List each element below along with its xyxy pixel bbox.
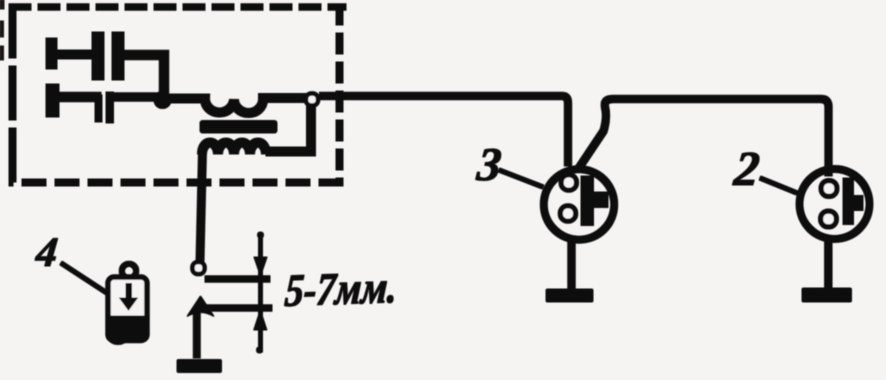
terminal T1 (top, capacitor lead) [46, 38, 57, 69]
wire from T2 to breaker points [52, 92, 101, 102]
gap dimension end dots [258, 232, 264, 238]
ignition coil core [200, 121, 277, 134]
spark plug 2 electrode stub [854, 196, 864, 211]
label 3 leader line [499, 170, 543, 187]
breaker points right contact [106, 92, 114, 123]
gap dimension line [259, 234, 263, 352]
label 2 leader line [760, 178, 797, 193]
breaker arm stem [193, 313, 200, 358]
kill switch knob [122, 264, 136, 278]
svg-text:3: 3 [474, 139, 504, 191]
kill switch lower solid half [109, 315, 147, 340]
gap dimension upper arrowhead [254, 257, 267, 276]
HV wire to spark plug 3 [320, 96, 569, 166]
spark plug 3 ground bar [546, 289, 593, 302]
spark plug 3 body circle [544, 169, 614, 239]
magneto unit boundary (dashed box) right edge [336, 4, 343, 186]
spark plug 2 upper terminal [822, 181, 837, 196]
svg-text:4: 4 [33, 229, 60, 276]
wire from breaker points to junction [107, 93, 162, 102]
gap dimension lower arrowhead [254, 310, 267, 330]
spark plug 3 ground stem [568, 238, 576, 290]
magneto unit boundary (dashed box) top edge [9, 4, 346, 11]
scan artifact marks at left image edge [0, 0, 4, 60]
spark plug 3 upper terminal [562, 175, 576, 189]
spark plug 3 electrode stub [594, 192, 609, 208]
breaker ground bar [177, 360, 222, 373]
spark plug 3 electrode bar [581, 176, 594, 226]
secondary winding L2 [202, 106, 311, 154]
spark plug 2 electrode bar [843, 178, 854, 225]
coil output terminal (open circle) [306, 94, 317, 105]
wire from capacitor to junction [124, 55, 164, 100]
label 4 leader line [61, 263, 110, 295]
breaker terminal circle [193, 262, 204, 273]
magneto unit boundary (dashed box) bottom edge [9, 179, 343, 186]
spark plug 3 lower terminal [561, 206, 575, 220]
spark plug 2 lower terminal [821, 212, 836, 227]
kill switch lower-left blob [108, 328, 129, 345]
kill switch arrow shaft [125, 283, 133, 300]
magneto unit boundary (dashed box) left edge [9, 4, 16, 182]
breaker points left contact [95, 95, 102, 122]
HV wire to spark plug 2 [578, 99, 829, 176]
primary winding L1 [160, 98, 306, 113]
wire from T1 to capacitor [51, 50, 93, 59]
breaker moving contact arrow [187, 296, 214, 317]
capacitor C left plate [92, 32, 104, 80]
capacitor C right plate [112, 32, 124, 80]
svg-text:5-7мм.: 5-7мм. [283, 261, 398, 316]
breaker moving contact line [203, 305, 272, 312]
kill switch arrow head [118, 297, 140, 312]
svg-text:2: 2 [731, 141, 762, 196]
wire from secondary to contact breaker [200, 150, 203, 261]
kill switch body [109, 278, 147, 341]
spark plug 2 body circle [800, 169, 870, 239]
terminal T2 (bottom, breaker lead) [46, 84, 59, 117]
junction dot [154, 92, 171, 109]
spark plug 2 ground stem [825, 238, 833, 289]
breaker fixed contact line [205, 276, 270, 283]
spark plug 2 ground bar [802, 288, 852, 302]
